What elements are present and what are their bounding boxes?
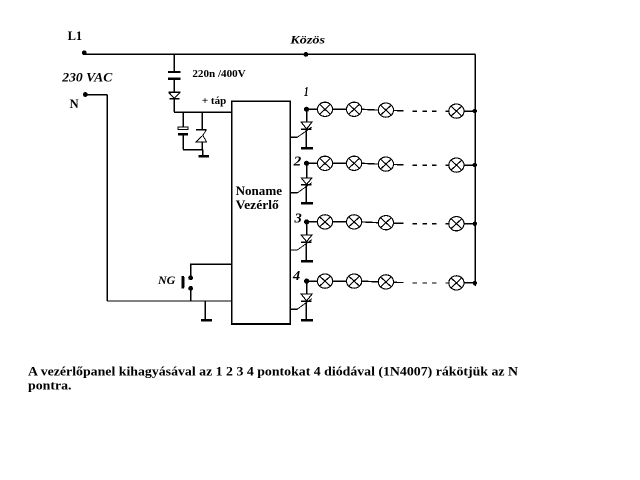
thyristor T3 — [297, 235, 312, 250]
switch NG actuator bar — [181, 276, 184, 289]
junction dot channel 3 on common bus — [473, 222, 477, 226]
svg-text:Noname: Noname — [236, 184, 283, 198]
wire lamp chain 1 dashed continuation — [394, 110, 449, 113]
svg-text:1: 1 — [304, 85, 309, 100]
wire node 2 to lamp chain — [307, 162, 318, 164]
wire lamp chain 1 — [333, 108, 347, 110]
node 1 junction dot — [304, 107, 309, 112]
wire C2 top lead — [182, 112, 184, 127]
wire lamp chain 2 — [333, 162, 347, 164]
svg-text:2: 2 — [293, 155, 302, 170]
svg-text:Vezérlő: Vezérlő — [236, 198, 279, 212]
channels drawn by template below — [290, 85, 477, 321]
lamp chain 2 bulb 1 — [317, 156, 332, 170]
wire lamp chain 4 — [362, 280, 379, 283]
thyristor T2 gate stub wire — [290, 192, 297, 194]
svg-text:A vezérlőpanel kihagyásával az: A vezérlőpanel kihagyásával az 1 2 3 4 p… — [28, 363, 519, 378]
lamp chain 4 bulb 3 — [378, 275, 393, 289]
wire lamp chain 4 dashed continuation — [394, 281, 449, 284]
lamp chain 3 bulb 1 — [317, 215, 332, 229]
thyristor T4 cathode wire — [305, 301, 307, 319]
wire lamp chain 1 to common bus — [464, 110, 475, 112]
wire node 1 to lamp chain — [307, 108, 318, 110]
svg-text:Közös: Közös — [289, 33, 325, 47]
thyristor T3 anode wire — [306, 222, 308, 235]
node Közös junction dot — [304, 52, 309, 57]
wire lamp chain 3 — [333, 221, 347, 223]
wire N horizontal stub — [85, 94, 107, 96]
svg-text:4: 4 — [292, 269, 300, 284]
wire C1 to D1 — [173, 80, 175, 92]
lamp chain 2 last bulb — [449, 158, 464, 172]
junction dot channel 2 on common bus — [473, 163, 477, 167]
svg-text:220n /400V: 220n /400V — [192, 68, 245, 80]
junction dot channel 4 on common bus — [473, 281, 477, 285]
wire Z1 top lead — [201, 112, 203, 129]
wire lamp chain 3 to common bus — [464, 223, 475, 225]
thyristor T1 anode wire — [306, 109, 308, 122]
wire L1 top rail — [84, 53, 475, 55]
thyristor T3 gate stub wire — [290, 249, 297, 251]
switch NG bottom contact — [188, 286, 193, 291]
svg-text:3: 3 — [293, 211, 301, 226]
wire D1 to +táp rail — [173, 99, 175, 112]
wire lamp chain 2 dashed continuation — [394, 164, 449, 167]
svg-text:+ táp: + táp — [202, 95, 226, 107]
wire node 3 to lamp chain — [307, 221, 318, 223]
wire lamp chain 2 to common bus — [464, 164, 475, 166]
junction dot channel 1 on common bus — [473, 109, 477, 113]
capacitor C1 220n/400V — [168, 71, 181, 80]
lamp chain 2 bulb 2 — [347, 156, 362, 170]
thyristor T1 gate stub wire — [290, 136, 297, 138]
thyristor T1 cathode wire — [305, 129, 307, 147]
lamp chain 3 bulb 2 — [347, 215, 362, 229]
wire N left vertical — [106, 95, 108, 301]
wire lamp chain 4 — [333, 280, 347, 282]
wire Z1 bottom lead — [201, 142, 203, 150]
svg-text:N: N — [70, 97, 79, 111]
wire lamp chain 4 to common bus — [464, 282, 475, 284]
lamp chain 1 bulb 2 — [347, 102, 362, 116]
wire to N-line ground — [204, 301, 206, 319]
diode D1 — [168, 92, 180, 99]
switch NG top contact — [188, 275, 193, 280]
lamp chain 1 last bulb — [449, 104, 464, 118]
wire lamp chain 1 — [362, 108, 379, 111]
thyristor T4 — [297, 294, 312, 309]
ground channel 2 — [301, 202, 313, 205]
zener diode Z1 — [196, 130, 207, 142]
capacitor C2 electrolytic — [178, 127, 188, 136]
svg-text:230 VAC: 230 VAC — [61, 71, 113, 85]
wire C2/Z1 bottom jumper — [183, 149, 202, 151]
lamp chain 3 last bulb — [449, 217, 464, 231]
wire to supply ground — [202, 150, 204, 156]
thyristor T4 gate stub wire — [290, 308, 297, 310]
lamp chain 1 bulb 3 — [378, 103, 393, 117]
wire C2 bottom lead — [182, 136, 184, 150]
wire NG to controller — [191, 264, 232, 278]
lamp chain 4 bulb 2 — [347, 274, 362, 288]
ground channel 1 — [301, 147, 313, 150]
node 4 junction dot — [304, 279, 309, 284]
wire +táp rail — [174, 111, 232, 113]
ground N line — [201, 319, 212, 322]
thyristor T1 — [297, 122, 312, 137]
lamp chain 4 last bulb — [449, 276, 464, 290]
wire lamp chain 3 dashed continuation — [394, 222, 449, 225]
thyristor T2 — [297, 178, 312, 193]
lamp chain 4 bulb 1 — [317, 274, 332, 288]
wire lamp chain 3 — [362, 221, 379, 224]
ground channel 3 — [301, 260, 313, 263]
wire NG to N line — [190, 288, 192, 301]
thyristor T2 anode wire — [306, 163, 308, 178]
thyristor T3 cathode wire — [305, 242, 307, 260]
terminal N — [83, 92, 88, 97]
wire N bottom run to controller — [107, 300, 232, 302]
terminal L1 — [82, 50, 87, 55]
node 2 junction dot — [304, 161, 309, 166]
controller box U1 — [232, 101, 291, 324]
ground channel 4 — [301, 319, 313, 322]
wire node 4 to lamp chain — [307, 280, 318, 282]
ground supply — [198, 155, 209, 158]
svg-text:NG: NG — [157, 273, 176, 287]
wire lamp chain 2 — [362, 162, 379, 165]
svg-text:pontra.: pontra. — [28, 377, 72, 392]
lamp chain 2 bulb 3 — [378, 157, 393, 171]
node 3 junction dot — [304, 219, 309, 224]
thyristor T4 anode wire — [306, 281, 308, 294]
svg-text:L1: L1 — [68, 29, 83, 43]
lamp chain 1 bulb 1 — [317, 102, 332, 116]
wire right common bus — [474, 54, 476, 286]
thyristor T2 cathode wire — [305, 185, 307, 202]
lamp chain 3 bulb 3 — [378, 216, 393, 230]
wire C1 top lead — [173, 54, 175, 71]
